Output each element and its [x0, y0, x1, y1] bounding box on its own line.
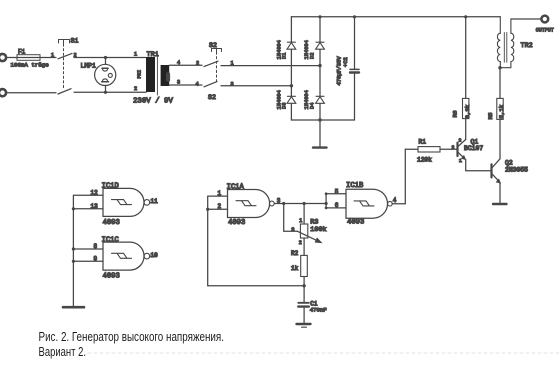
svg-text:2: 2: [299, 240, 302, 246]
wire terminal2 to S1 pole B: [7, 92, 57, 94]
svg-text:BC107: BC107: [464, 145, 483, 152]
svg-text:S2: S2: [209, 42, 217, 49]
transformer TR2 primary: [497, 17, 500, 68]
wire terminal1 to fuse: [7, 57, 18, 59]
transformer TR1 core line: [156, 54, 158, 95]
node C2 top rail junction: [353, 15, 356, 18]
node bus pin9: [72, 260, 75, 263]
node lower AC into left column: [290, 84, 293, 87]
transistor Q1: [452, 138, 484, 164]
resistor R2: [291, 250, 307, 286]
svg-text:OUTPUT: OUTPUT: [536, 27, 554, 33]
nand gate IC1B: [335, 182, 406, 227]
nand gate IC1D: [91, 183, 159, 227]
svg-text:F1: F1: [18, 49, 26, 56]
wire wiper branch: [284, 204, 298, 232]
svg-text:IC1C: IC1C: [102, 236, 120, 244]
svg-text:4: 4: [196, 81, 199, 87]
wire TR1 sec bottom to S2: [169, 84, 202, 86]
wire Q1 emitter to Q2 base: [466, 160, 491, 171]
svg-text:11: 11: [151, 198, 159, 205]
node bottom rail ground junction: [318, 118, 321, 121]
svg-text:3: 3: [291, 227, 294, 233]
wire bridge bottom rail: [291, 119, 354, 121]
switch S1 actuator bracket: [59, 40, 70, 45]
wire IC1B output up to R1: [404, 149, 406, 203]
terminal input bottom: [0, 89, 6, 96]
terminal input top: [0, 54, 6, 61]
resistor R6: [452, 98, 471, 118]
svg-text:S2: S2: [208, 94, 216, 101]
switch S2 linkage dashed: [216, 52, 218, 84]
svg-text:4093: 4093: [228, 219, 245, 227]
node LMP1 bottom junction: [104, 91, 107, 94]
wire S2 pole B to bridge left column: [221, 85, 291, 87]
svg-text:470µF/35V: 470µF/35V: [337, 56, 343, 86]
ground gate bus: [63, 306, 84, 309]
wire top rail: [291, 16, 500, 18]
fuse F1: [11, 49, 50, 69]
wire TR1 sec top to S2: [169, 64, 202, 66]
svg-text:+C2: +C2: [343, 57, 349, 67]
svg-text:120k: 120k: [417, 157, 432, 164]
node R6 top rail junction: [464, 15, 467, 18]
svg-text:D4: D4: [310, 103, 316, 109]
svg-text:R2: R2: [291, 250, 299, 257]
svg-text:R6: R6: [452, 110, 459, 117]
svg-text:1: 1: [51, 53, 54, 59]
svg-text:1: 1: [134, 51, 137, 57]
wire IC1A output line: [274, 203, 326, 205]
svg-text:1: 1: [459, 158, 462, 164]
svg-text:TR1: TR1: [147, 51, 159, 59]
svg-text:2N3055: 2N3055: [505, 166, 528, 173]
node pot top branch: [303, 202, 306, 205]
wire rail to R6: [465, 17, 467, 99]
svg-text:Вариант 2.: Вариант 2.: [39, 344, 87, 359]
svg-text:D3: D3: [282, 103, 288, 109]
svg-text:100mA träge: 100mA träge: [11, 62, 50, 69]
potentiometer R3: [291, 204, 326, 256]
wire feedback bottom: [208, 285, 304, 287]
svg-text:4: 4: [393, 197, 397, 204]
switch S2 pole B blade: [204, 82, 217, 87]
wire S1 to TR1 primary top: [74, 57, 146, 59]
capacitor C2: [337, 17, 359, 120]
svg-text:230V / 9V: 230V / 9V: [133, 98, 173, 106]
svg-text:10: 10: [151, 252, 159, 259]
wire IC1A inputs: [208, 196, 228, 286]
capacitor C1: [298, 286, 326, 324]
transistor Q2: [492, 159, 529, 183]
resistor R1: [405, 139, 456, 164]
transformer TR1 primary winding: [146, 57, 155, 92]
svg-text:Q2: Q2: [505, 159, 513, 166]
svg-text:R1: R1: [419, 139, 427, 146]
ground Q2 emitter: [493, 203, 507, 205]
svg-text:LMP1: LMP1: [81, 62, 97, 69]
svg-text:2: 2: [196, 60, 199, 66]
switch S1 pole A blade: [58, 53, 72, 58]
svg-text:2: 2: [459, 138, 462, 144]
switch S1 pole B blade: [58, 89, 71, 94]
svg-text:5,1k: 5,1k: [498, 104, 505, 118]
transformer TR2 core: [504, 33, 507, 63]
terminal OUTPUT: [536, 16, 554, 34]
page edge faint line: [88, 352, 559, 354]
wire IC1B input connector: [326, 194, 346, 208]
lamp LMP1: [81, 58, 116, 93]
node IC1B pin6: [325, 207, 328, 210]
svg-text:IC1B: IC1B: [346, 182, 364, 190]
wire S2 pole A to bridge: [221, 65, 320, 67]
diode D3: [276, 90, 296, 109]
node wiper branch: [282, 202, 285, 205]
node right column top rail: [318, 15, 321, 18]
transformer TR2 secondary: [500, 19, 514, 68]
node IC1A input2: [206, 208, 209, 211]
transformer TR1 secondary winding: [161, 65, 170, 86]
svg-text:3: 3: [231, 82, 234, 88]
wire bridge left column: [290, 17, 292, 120]
svg-text:4093: 4093: [347, 218, 364, 226]
node bus pin13: [72, 207, 75, 210]
diode D4: [304, 90, 324, 109]
svg-text:2: 2: [134, 86, 137, 92]
svg-text:Рис. 2. Генератор высокого нап: Рис. 2. Генератор высокого напряжения.: [39, 329, 225, 344]
wire IC1D/IC1C input bus: [73, 195, 103, 306]
resistor R5: [487, 98, 505, 119]
switch S2 actuator bracket: [212, 49, 222, 53]
nand gate IC1A: [218, 183, 281, 227]
node bus pin8: [72, 247, 75, 250]
switch S2 pole A blade: [204, 61, 218, 66]
node R2 C1 junction: [302, 284, 305, 287]
diode D2: [304, 40, 324, 59]
svg-text:IC1A: IC1A: [227, 183, 245, 191]
svg-text:IC1D: IC1D: [102, 183, 119, 191]
diode D1: [276, 40, 296, 59]
svg-text:SEC: SEC: [166, 72, 172, 81]
svg-text:1k: 1k: [291, 265, 299, 272]
svg-text:S1: S1: [71, 38, 79, 45]
svg-text:100k: 100k: [310, 226, 326, 234]
svg-text:TR2: TR2: [521, 42, 533, 50]
svg-text:4093: 4093: [103, 219, 120, 227]
wire S1 pole B to TR1 primary bottom: [74, 91, 146, 93]
svg-text:1: 1: [299, 218, 302, 224]
node upper AC into right column: [318, 64, 321, 67]
node IC1B input junction: [325, 202, 328, 205]
node IC1B pin5: [325, 192, 328, 195]
svg-text:PRI: PRI: [137, 70, 143, 79]
svg-text:D2: D2: [310, 53, 316, 59]
svg-text:470nF: 470nF: [310, 306, 327, 313]
svg-text:3,3k: 3,3k: [464, 104, 471, 118]
svg-text:4093: 4093: [103, 273, 120, 281]
nand gate IC1C: [94, 236, 159, 280]
ground C1: [297, 324, 311, 327]
svg-text:R5: R5: [487, 112, 494, 119]
node TR2 bottom junction: [498, 66, 501, 69]
wire R5 to Q2 collector: [499, 119, 501, 158]
ground bridge: [313, 120, 327, 148]
node LMP1 top junction: [104, 56, 107, 59]
switch S1 linkage dashed: [63, 44, 65, 90]
wire bridge right column: [319, 17, 321, 120]
wire TR2 bottom to R5: [499, 68, 501, 99]
wire Q2 emitter down: [499, 183, 501, 204]
wire fuse to S1: [40, 57, 56, 59]
wire TR2 secondary to output: [511, 18, 541, 20]
wire R6 to Q1 collector: [465, 119, 467, 140]
svg-text:D1: D1: [282, 53, 288, 59]
